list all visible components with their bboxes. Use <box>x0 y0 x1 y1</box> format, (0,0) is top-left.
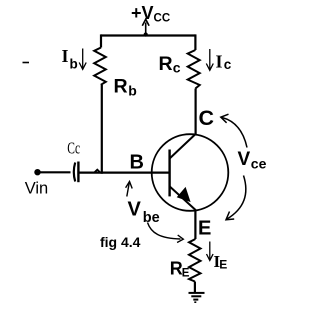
junction dot on top rail <box>144 32 148 36</box>
capacitor Cc curved plate <box>74 163 75 182</box>
resistor Rb <box>94 48 106 85</box>
svg-text:b: b <box>128 83 137 99</box>
arrow Vbe pointer <box>126 182 133 197</box>
svg-text:C: C <box>199 106 215 130</box>
terminal dot Vin <box>34 169 40 175</box>
svg-text:ce: ce <box>251 155 267 171</box>
stray dash mark <box>23 62 30 64</box>
svg-text:Cc: Cc <box>67 138 80 157</box>
resistor Rc <box>188 50 200 89</box>
transistor Q1 collector stroke <box>170 134 196 159</box>
resistor RE <box>189 239 201 282</box>
svg-text:fig 4.4: fig 4.4 <box>100 234 141 250</box>
wire RE to ground <box>194 282 196 294</box>
svg-text:V: V <box>128 199 142 221</box>
svg-text:E: E <box>182 268 190 280</box>
svg-text:E: E <box>198 217 211 239</box>
arrow Vce upper arc <box>221 114 247 147</box>
svg-text:B: B <box>130 151 144 173</box>
transistor Q1 base bar <box>168 150 170 197</box>
svg-text:Vin: Vin <box>25 180 49 198</box>
arrow Vbe to emitter resistor <box>148 223 184 243</box>
transistor Q1 emitter stroke <box>170 186 196 210</box>
svg-text:V: V <box>238 149 251 170</box>
arrow Vce lower arc <box>226 176 246 220</box>
wire right rail upper <box>194 34 196 50</box>
svg-text:I: I <box>62 46 69 66</box>
transistor Q1 emitter arrowhead <box>178 188 190 201</box>
wire top rail <box>101 34 196 36</box>
svg-text:c: c <box>173 60 181 76</box>
wire left rail lower (Rb to base node) <box>101 85 103 174</box>
svg-text:be: be <box>143 210 160 226</box>
svg-text:b: b <box>70 57 78 72</box>
wire emitter rail (transistor to RE) <box>194 210 196 240</box>
transistor Q1 circle <box>152 134 229 211</box>
wire capacitor to base <box>78 172 169 174</box>
capacitor Cc straight plate <box>77 162 79 183</box>
Vcc supply lead with up arrow <box>142 19 149 35</box>
wire Vin to capacitor <box>38 171 71 173</box>
ground <box>189 293 205 302</box>
svg-text:I: I <box>216 52 223 72</box>
arrow IE current direction <box>207 242 214 261</box>
svg-text:R: R <box>159 53 173 75</box>
arrow Ib current direction <box>79 49 86 70</box>
wire bump artifact <box>95 170 101 173</box>
svg-text:R: R <box>114 76 128 98</box>
arrow Ic current direction <box>206 49 213 70</box>
wire left rail upper <box>100 34 102 47</box>
svg-text:E: E <box>219 258 227 272</box>
svg-text:c: c <box>224 57 232 72</box>
wire collector rail (Rc to transistor) <box>195 89 197 135</box>
